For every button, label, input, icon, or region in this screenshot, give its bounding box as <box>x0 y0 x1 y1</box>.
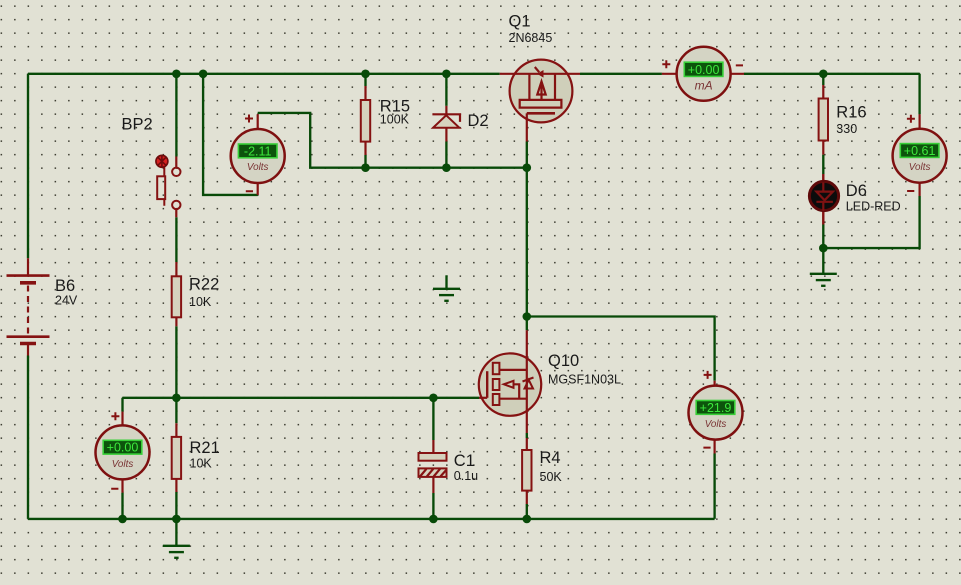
svg-text:330: 330 <box>836 122 857 136</box>
svg-text:24V: 24V <box>55 294 78 308</box>
svg-text:Q1: Q1 <box>509 13 531 31</box>
svg-text:0.1u: 0.1u <box>454 469 478 483</box>
svg-text:BP2: BP2 <box>122 116 153 134</box>
svg-text:LED-RED: LED-RED <box>846 200 901 214</box>
svg-text:D2: D2 <box>468 112 489 130</box>
svg-text:100K: 100K <box>380 113 410 127</box>
svg-text:+0.00: +0.00 <box>688 63 720 77</box>
svg-text:+0.61: +0.61 <box>904 144 936 158</box>
svg-text:Volts: Volts <box>247 162 269 173</box>
svg-text:D6: D6 <box>846 182 867 200</box>
svg-text:R4: R4 <box>540 449 561 467</box>
svg-text:mA: mA <box>695 79 713 93</box>
svg-text:Volts: Volts <box>705 419 727 430</box>
svg-text:C1: C1 <box>454 452 475 470</box>
svg-text:10K: 10K <box>189 295 212 309</box>
svg-text:2N6845: 2N6845 <box>509 31 553 45</box>
svg-text:R22: R22 <box>189 276 219 294</box>
svg-text:-2.11: -2.11 <box>244 144 272 158</box>
svg-text:50K: 50K <box>540 470 563 484</box>
svg-text:R21: R21 <box>190 439 220 457</box>
svg-text:+0.00: +0.00 <box>107 441 139 455</box>
svg-text:R16: R16 <box>836 104 866 122</box>
svg-text:Volts: Volts <box>112 459 134 470</box>
svg-text:10K: 10K <box>190 457 213 471</box>
svg-text:+21.9: +21.9 <box>700 401 732 415</box>
svg-text:B6: B6 <box>55 277 75 295</box>
svg-text:Volts: Volts <box>909 162 931 173</box>
svg-text:MGSF1N03L: MGSF1N03L <box>548 373 621 387</box>
svg-text:Q10: Q10 <box>548 352 579 370</box>
